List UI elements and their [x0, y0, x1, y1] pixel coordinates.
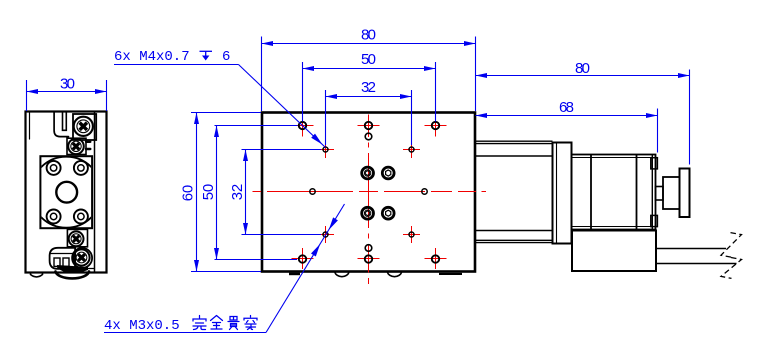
- central plate: [40, 156, 92, 228]
- motor end inner line: [651, 155, 653, 230]
- main plate: [262, 113, 475, 272]
- leader 4x M3: [104, 204, 345, 333]
- cross M3 h9: [317, 226, 334, 243]
- cross M4 h4: [292, 248, 314, 269]
- svg-text:32: 32: [361, 79, 376, 96]
- knob: [680, 169, 690, 218]
- wire break zigzag 2: [721, 258, 742, 279]
- side view carriage edge line: [94, 112, 96, 272]
- dim left 50: [214, 126, 298, 260]
- motor flange: [553, 143, 572, 244]
- center screw TL: [362, 167, 374, 179]
- hole M4 h5: [365, 255, 372, 262]
- bottom arc boss: [56, 272, 90, 279]
- CJK 完全贯穿: [193, 316, 257, 330]
- svg-text:50: 50: [361, 51, 376, 68]
- top view holes: [299, 122, 439, 263]
- screw U3 phillips cross: [70, 233, 82, 245]
- screw1 housing: [73, 114, 96, 140]
- svg-text:6: 6: [222, 49, 230, 65]
- dim top 50: [303, 62, 436, 122]
- dim left 32: [242, 150, 322, 235]
- top bracket left prong: [54, 113, 68, 137]
- screw U2 phillips cross: [70, 140, 83, 153]
- shaft bushing: [663, 177, 680, 209]
- cross M4 h2: [358, 115, 380, 137]
- screw2 housing: [67, 138, 86, 154]
- wire break zigzag 1: [721, 233, 742, 258]
- motor body inner top: [572, 157, 656, 159]
- cross M3 h8: [403, 141, 420, 158]
- screw U4 phillips cross: [75, 251, 89, 265]
- screw U1 phillips cross: [76, 119, 91, 134]
- side view inner left rail line: [29, 112, 31, 139]
- connector box: [572, 231, 656, 272]
- dim top 32: [326, 90, 412, 145]
- side view outer body: [26, 112, 107, 273]
- screw4 outer arc circle: [72, 248, 92, 268]
- char quan: [211, 316, 223, 330]
- hole M3 h7: [323, 147, 328, 152]
- char guan: [228, 317, 239, 330]
- shaft stub: [656, 187, 664, 201]
- cross M3 h7: [317, 141, 334, 158]
- vertical centerline: [368, 115, 370, 284]
- cross M4 h5: [358, 248, 380, 269]
- hole M3 h10: [409, 232, 414, 237]
- top bracket middle prong U: [63, 113, 67, 131]
- dim right 68: [476, 109, 658, 153]
- plate socket screw BR: [74, 210, 88, 224]
- hole M3 h9: [323, 232, 328, 237]
- screw U3 phillips outer: [69, 231, 84, 246]
- dim left 60: [191, 113, 261, 272]
- hole side left: [310, 189, 315, 194]
- center bore circle: [56, 182, 77, 203]
- svg-text:50: 50: [200, 184, 217, 201]
- motor segment line 2: [636, 155, 638, 230]
- center screw BL: [362, 207, 374, 219]
- cross M4 h3: [425, 115, 447, 137]
- cross M4 h6: [425, 248, 447, 269]
- hole M4 h1: [299, 122, 306, 129]
- left foot: [31, 273, 43, 277]
- foot bump right: [387, 272, 401, 277]
- plate socket screw TR: [74, 161, 88, 175]
- hole center bottom: [365, 245, 372, 252]
- dim 30: [27, 80, 107, 111]
- connector mid line: [50, 253, 75, 255]
- svg-text:30: 30: [60, 76, 75, 93]
- motor body: [572, 155, 656, 230]
- svg-text:60: 60: [180, 185, 197, 202]
- connector right bottom line: [86, 268, 94, 270]
- center screw TR: [382, 167, 394, 179]
- plate socket screw TL: [47, 161, 61, 175]
- char chuan: [244, 316, 257, 330]
- svg-text:80: 80: [361, 27, 376, 44]
- red hole crosses: [292, 115, 447, 270]
- screw U2 phillips inner ring: [71, 141, 81, 151]
- hole M3 h8: [409, 147, 414, 152]
- motor body inner bottom: [572, 226, 656, 228]
- screw U2 phillips outer: [68, 139, 84, 155]
- hole M4 h3: [432, 122, 439, 129]
- dim top 80: [262, 37, 476, 112]
- motor end tab bottom: [651, 215, 658, 226]
- horizontal centerline: [253, 191, 487, 193]
- hole center top: [365, 133, 372, 140]
- flange inner line: [556, 143, 558, 243]
- motor segment line 1: [590, 155, 592, 230]
- foot bump left: [335, 272, 349, 277]
- screw U4 phillips inner ring: [76, 252, 87, 263]
- hole side right: [422, 189, 427, 194]
- motor end tab top: [651, 158, 658, 169]
- base tick left: [289, 273, 300, 276]
- wire 1: [656, 248, 726, 250]
- cross M3 h10: [403, 226, 420, 243]
- svg-text:80: 80: [575, 60, 590, 77]
- leader 6x M4: [114, 65, 326, 148]
- svg-text:32: 32: [229, 184, 246, 201]
- screw U3 phillips inner ring: [71, 234, 81, 244]
- depth symbol: [200, 51, 213, 60]
- adapter top inner: [476, 155, 553, 157]
- adapter bottom outer: [476, 239, 553, 241]
- screw U1 phillips inner ring: [77, 120, 90, 133]
- connector block: [50, 248, 76, 269]
- connector pins: [54, 258, 60, 266]
- wire 2: [656, 263, 737, 265]
- cross M4 h1: [292, 115, 314, 137]
- adapter bottom inner: [476, 230, 553, 232]
- screw3 housing: [67, 229, 87, 246]
- svg-text:68: 68: [559, 99, 574, 116]
- plate socket screw BL: [47, 210, 61, 224]
- connector dark base: [57, 265, 88, 273]
- red center lines: [253, 115, 487, 284]
- screw2 housing ticks: [86, 141, 90, 143]
- svg-text:4x M3x0.5: 4x M3x0.5: [104, 318, 180, 334]
- char wan: [193, 316, 206, 330]
- screw U1 phillips outer: [74, 117, 93, 136]
- hole M4 h6: [432, 255, 439, 262]
- screw U4 phillips outer: [73, 249, 89, 265]
- hole M4 h2: [365, 122, 372, 129]
- center screw BR: [382, 207, 394, 219]
- svg-text:6x M4x0.7: 6x M4x0.7: [114, 49, 190, 65]
- dim right 80: [476, 70, 690, 165]
- base tick right: [439, 273, 462, 275]
- hole M4 h4: [299, 255, 306, 262]
- adapter top outer: [476, 140, 553, 142]
